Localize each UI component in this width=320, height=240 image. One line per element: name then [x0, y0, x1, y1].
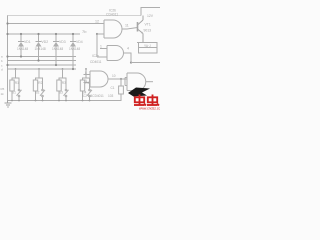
resistor R4 [80, 69, 90, 101]
diode VD2 [36, 34, 42, 61]
ground [5, 101, 12, 108]
wire ground bus [8, 94, 122, 101]
svg-text:1N4148: 1N4148 [69, 47, 80, 51]
wire gate12-13 vertical link [96, 34, 98, 57]
svg-text:VD2: VD2 [42, 40, 49, 44]
svg-text:9013: 9013 [144, 29, 152, 33]
diode VD3 [53, 34, 59, 65]
switch S2 [40, 78, 45, 101]
svg-text:103: 103 [108, 94, 114, 98]
svg-text:S3: S3 [59, 91, 63, 95]
wire top-right supply line [141, 8, 160, 16]
svg-text:VD3: VD3 [59, 40, 66, 44]
svg-text:VD1: VD1 [24, 40, 31, 44]
switch S3 [64, 78, 69, 101]
svg-text:IC2 1/4CD4011: IC2 1/4CD4011 [82, 94, 104, 98]
svg-text:C1: C1 [111, 86, 115, 90]
watermark 虫 char 2 [147, 95, 159, 106]
resistor R2 [33, 69, 43, 101]
wire bus line d [8, 68, 77, 70]
svg-text:VT1: VT1 [145, 23, 151, 27]
op-amp gate IC2a (middle NAND) [97, 46, 160, 63]
wire left vertical bus [7, 15, 9, 103]
svg-text:www.cndzz.com: www.cndzz.com [139, 107, 160, 111]
svg-text:12: 12 [95, 20, 99, 24]
wire diode anode bus y34 [8, 33, 81, 35]
svg-text:1N4148: 1N4148 [17, 47, 28, 51]
diode VD4 [70, 34, 76, 69]
resistor R3 [57, 69, 67, 101]
op-amp gate IC2c (bottom-middle NAND) [84, 71, 128, 87]
wire top +V rail [8, 15, 142, 17]
switch S4 [87, 78, 92, 101]
svg-text:10: 10 [112, 74, 116, 78]
relay coil YA [137, 43, 158, 54]
svg-text:VD4: VD4 [76, 40, 83, 44]
svg-text:1k: 1k [1, 92, 5, 96]
wire row line to gate input 12 [8, 23, 105, 25]
svg-text:R1: R1 [15, 81, 19, 85]
svg-text:CD4011: CD4011 [90, 60, 102, 64]
svg-text:12V: 12V [147, 14, 154, 18]
svg-text:CD4011: CD4011 [106, 13, 118, 17]
svg-text:R2: R2 [38, 81, 42, 85]
svg-text:IC2a: IC2a [92, 54, 99, 58]
wire bus line c [8, 64, 77, 66]
junction dots [6, 22, 132, 101]
svg-text:R3: R3 [62, 81, 66, 85]
svg-text:7b: 7b [82, 29, 87, 34]
op-amp gate IC2b (top NAND) [97, 20, 138, 38]
wire bus line b [8, 60, 77, 62]
op-amp gate IC2d (bottom-right NAND) [125, 73, 153, 91]
transistor VT1 [138, 16, 144, 43]
svg-text:R5: R5 [1, 87, 5, 91]
diode VD1 [18, 34, 24, 57]
wire bus line a [8, 56, 77, 58]
svg-text:8: 8 [85, 71, 87, 75]
svg-text:11: 11 [125, 24, 129, 28]
text labels [1, 9, 154, 99]
capacitor C1 [119, 79, 124, 101]
svg-text:1N4148: 1N4148 [35, 47, 46, 51]
resistor R1 [10, 69, 20, 101]
svg-text:9: 9 [85, 79, 87, 83]
svg-text:S1: S1 [12, 91, 16, 95]
watermark bug icon [128, 88, 150, 97]
svg-text:1: 1 [100, 45, 102, 49]
switch S1 [17, 78, 22, 101]
watermark 虫 char 1 [134, 95, 146, 106]
svg-text:1N4148: 1N4148 [52, 47, 63, 51]
svg-text:4: 4 [127, 47, 129, 51]
svg-text:S2: S2 [36, 91, 40, 95]
svg-text:YA·J: YA·J [144, 44, 151, 48]
